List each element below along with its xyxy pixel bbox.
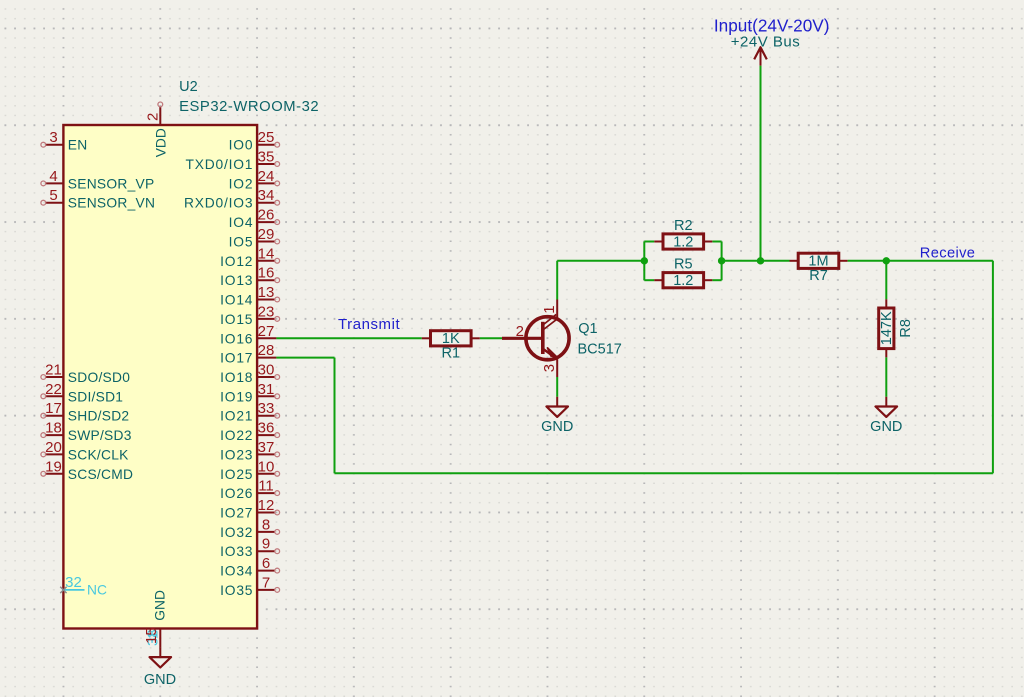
- svg-text:GND: GND: [541, 419, 573, 435]
- svg-text:+24V Bus: +24V Bus: [731, 34, 800, 51]
- svg-text:10: 10: [258, 458, 275, 475]
- svg-text:20: 20: [45, 439, 62, 456]
- svg-text:19: 19: [45, 458, 62, 475]
- svg-text:30: 30: [258, 362, 275, 379]
- svg-text:35: 35: [258, 149, 275, 166]
- svg-text:29: 29: [258, 226, 275, 243]
- svg-text:IO15: IO15: [220, 312, 253, 327]
- svg-text:4: 4: [49, 168, 57, 185]
- svg-text:13: 13: [258, 284, 275, 301]
- svg-text:SWP/SD3: SWP/SD3: [68, 428, 132, 443]
- svg-text:14: 14: [258, 245, 275, 262]
- svg-text:ESP32-WROOM-32: ESP32-WROOM-32: [179, 99, 319, 115]
- svg-text:17: 17: [45, 400, 62, 417]
- svg-text:IO0: IO0: [229, 138, 254, 153]
- svg-text:EN: EN: [68, 138, 88, 153]
- svg-text:GND: GND: [153, 590, 168, 621]
- svg-text:GND: GND: [870, 419, 902, 435]
- svg-text:IO14: IO14: [220, 293, 253, 308]
- svg-text:IO21: IO21: [220, 409, 253, 424]
- svg-text:27: 27: [258, 323, 275, 340]
- svg-text:2: 2: [144, 113, 161, 121]
- svg-text:R8: R8: [898, 319, 914, 338]
- svg-text:1.2: 1.2: [673, 234, 693, 250]
- svg-text:15: 15: [143, 627, 160, 644]
- svg-text:IO26: IO26: [220, 486, 253, 501]
- svg-text:23: 23: [258, 303, 275, 320]
- svg-text:26: 26: [258, 207, 275, 224]
- svg-text:IO23: IO23: [220, 447, 253, 462]
- svg-text:NC: NC: [87, 583, 107, 598]
- svg-text:1.2: 1.2: [673, 273, 693, 289]
- svg-text:IO25: IO25: [220, 467, 253, 482]
- svg-text:IO2: IO2: [229, 176, 254, 191]
- svg-text:2: 2: [516, 323, 524, 340]
- svg-text:SDI/SD1: SDI/SD1: [68, 389, 123, 404]
- svg-text:RXD0/IO3: RXD0/IO3: [184, 196, 253, 211]
- svg-text:Transmit: Transmit: [338, 316, 400, 333]
- svg-text:R7: R7: [809, 268, 828, 284]
- svg-text:7: 7: [262, 574, 270, 591]
- svg-text:16: 16: [258, 265, 275, 282]
- svg-text:5: 5: [49, 187, 57, 204]
- svg-text:IO32: IO32: [220, 525, 253, 540]
- svg-text:SHD/SD2: SHD/SD2: [68, 409, 130, 424]
- svg-text:28: 28: [258, 342, 275, 359]
- svg-text:34: 34: [258, 187, 275, 204]
- svg-text:R5: R5: [674, 257, 693, 273]
- svg-text:IO27: IO27: [220, 506, 253, 521]
- svg-text:R1: R1: [442, 346, 461, 362]
- svg-text:11: 11: [258, 478, 274, 495]
- svg-text:33: 33: [258, 400, 275, 417]
- svg-text:Q1: Q1: [578, 321, 597, 337]
- svg-text:25: 25: [258, 129, 275, 146]
- svg-text:TXD0/IO1: TXD0/IO1: [186, 157, 254, 172]
- svg-text:IO34: IO34: [220, 564, 253, 579]
- svg-text:IO22: IO22: [220, 428, 253, 443]
- svg-text:21: 21: [45, 362, 62, 379]
- svg-text:IO17: IO17: [220, 351, 253, 366]
- svg-text:36: 36: [258, 420, 275, 437]
- svg-text:12: 12: [258, 497, 275, 514]
- svg-text:22: 22: [45, 381, 62, 398]
- svg-text:U2: U2: [179, 79, 198, 95]
- svg-text:IO13: IO13: [220, 273, 253, 288]
- svg-text:IO4: IO4: [229, 215, 254, 230]
- svg-text:37: 37: [258, 439, 275, 456]
- svg-text:3: 3: [541, 364, 558, 372]
- svg-text:Receive: Receive: [920, 245, 976, 261]
- svg-text:IO35: IO35: [220, 583, 253, 598]
- svg-text:SCS/CMD: SCS/CMD: [68, 467, 133, 482]
- svg-text:SENSOR_VN: SENSOR_VN: [68, 196, 155, 211]
- svg-text:8: 8: [262, 516, 270, 533]
- svg-text:6: 6: [262, 555, 270, 572]
- svg-text:3: 3: [49, 129, 57, 146]
- svg-text:147K: 147K: [879, 311, 895, 345]
- svg-text:IO33: IO33: [220, 544, 253, 559]
- svg-text:IO18: IO18: [220, 370, 253, 385]
- svg-text:31: 31: [258, 381, 275, 398]
- svg-text:Input(24V-20V): Input(24V-20V): [714, 16, 830, 36]
- svg-text:GND: GND: [144, 672, 176, 688]
- svg-text:SDO/SD0: SDO/SD0: [68, 370, 130, 385]
- svg-text:32: 32: [65, 574, 82, 591]
- svg-text:24: 24: [258, 168, 275, 185]
- svg-text:IO12: IO12: [220, 254, 253, 269]
- svg-text:R2: R2: [674, 218, 693, 234]
- svg-text:9: 9: [262, 536, 270, 553]
- svg-text:IO19: IO19: [220, 389, 253, 404]
- svg-text:BC517: BC517: [578, 342, 622, 358]
- svg-text:IO16: IO16: [220, 331, 253, 346]
- svg-text:1: 1: [541, 305, 558, 313]
- svg-text:SCK/CLK: SCK/CLK: [68, 447, 129, 462]
- svg-text:IO5: IO5: [229, 235, 254, 250]
- svg-text:18: 18: [45, 420, 62, 437]
- svg-text:VDD: VDD: [153, 128, 168, 157]
- svg-text:SENSOR_VP: SENSOR_VP: [68, 176, 155, 191]
